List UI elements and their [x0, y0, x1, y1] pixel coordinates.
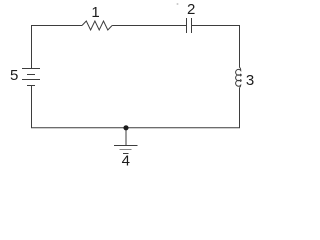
capacitor 2	[187, 18, 192, 33]
wire resistor to capacitor	[112, 25, 186, 27]
inductor 3	[236, 67, 242, 87]
svg-text:5: 5	[10, 67, 18, 84]
junction node (bottom wire to ground)	[123, 125, 128, 130]
ground 4	[114, 128, 138, 154]
wire top-left segment	[32, 26, 83, 69]
svg-text:3: 3	[246, 72, 254, 89]
wire capacitor to top-right corner	[192, 26, 240, 68]
stray dot artifact	[177, 3, 179, 5]
resistor 1	[82, 21, 112, 30]
battery 5 (voltage source)	[22, 69, 40, 86]
svg-text:4: 4	[122, 153, 130, 170]
svg-text:1: 1	[91, 4, 99, 21]
svg-text:2: 2	[187, 1, 195, 18]
wire inductor to bottom-right corner	[126, 88, 240, 128]
wire bottom-left segment	[32, 86, 127, 128]
